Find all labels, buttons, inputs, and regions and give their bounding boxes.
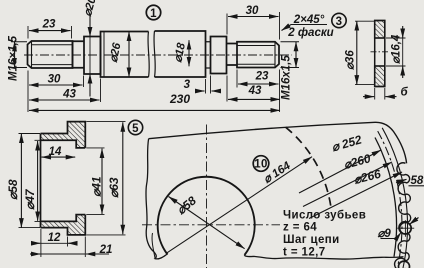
roller circle d9 xyxy=(400,222,412,234)
svg-text:30: 30 xyxy=(246,5,259,17)
svg-text:3: 3 xyxy=(336,16,343,28)
dim d18 xyxy=(188,40,190,66)
svg-text:z = 64: z = 64 xyxy=(283,222,317,234)
dim 6 thickness xyxy=(375,88,385,100)
dim 43 right xyxy=(227,70,280,113)
svg-text:б: б xyxy=(401,87,409,99)
dim 12 xyxy=(41,229,68,257)
dim d47 xyxy=(35,140,41,221)
roller pointer xyxy=(409,218,418,225)
dim M16x1.5 left xyxy=(11,42,27,68)
svg-text:23: 23 xyxy=(42,19,56,31)
dim 21 xyxy=(84,237,86,258)
svg-text:14: 14 xyxy=(49,146,62,158)
dim d36 xyxy=(355,21,374,84)
dim d41 xyxy=(86,148,104,215)
svg-text:М16×1,5: М16×1,5 xyxy=(8,35,20,81)
break lines xyxy=(148,32,149,78)
bottom boundary edge xyxy=(244,255,403,259)
svg-text:2×45°: 2×45° xyxy=(293,14,325,26)
outline xyxy=(41,122,86,228)
left neck xyxy=(73,41,85,68)
svg-text:43: 43 xyxy=(62,89,76,101)
svg-text:⌀63: ⌀63 xyxy=(107,177,121,198)
svg-text:10: 10 xyxy=(254,159,268,171)
dim 3 xyxy=(206,76,211,94)
dim d16.4 xyxy=(386,38,406,66)
svg-text:21: 21 xyxy=(99,244,113,256)
short d18 step (3mm) xyxy=(206,42,211,68)
hatch xyxy=(41,134,68,141)
dim d266 xyxy=(309,172,402,219)
svg-text:⌀41: ⌀41 xyxy=(90,176,104,197)
dim d252 xyxy=(299,150,381,193)
svg-text:3: 3 xyxy=(184,79,191,91)
callout circle 3 xyxy=(332,13,346,27)
right threaded end M16x1.5 xyxy=(237,42,279,68)
leader 2x45 xyxy=(282,25,292,31)
dim d164 radial xyxy=(167,157,312,253)
horizontal centerline xyxy=(142,224,280,226)
callout circle 5 xyxy=(128,120,142,134)
tooth profile xyxy=(395,163,411,268)
dim 14 xyxy=(42,156,76,158)
svg-text:1: 1 xyxy=(150,8,157,20)
washer centerline xyxy=(371,51,390,53)
dim 230 xyxy=(29,109,280,111)
cylinder section B d18 xyxy=(155,31,206,77)
shaft dimensions xyxy=(11,12,327,112)
svg-text:⌀36: ⌀36 xyxy=(345,50,357,70)
svg-text:230: 230 xyxy=(169,92,190,106)
top boundary edge xyxy=(149,122,407,163)
dim d26 xyxy=(128,32,130,78)
right collar xyxy=(211,37,227,74)
dim 30 left xyxy=(28,71,84,113)
leader 58 tooth xyxy=(409,185,424,187)
svg-text:t = 12,7: t = 12,7 xyxy=(283,247,326,259)
svg-text:23: 23 xyxy=(255,71,269,83)
bottom partial roller xyxy=(399,261,410,268)
dim d260 xyxy=(303,162,392,207)
dim d58 diagonal xyxy=(169,197,245,249)
dim M16x1.5 right xyxy=(281,42,300,68)
sprocket rim arcs xyxy=(375,138,397,257)
svg-text:М16х1,5: М16х1,5 xyxy=(281,55,293,100)
dim 23 left xyxy=(28,26,72,39)
svg-text:2 фаски: 2 фаски xyxy=(287,27,333,39)
svg-text:⌀16,4: ⌀16,4 xyxy=(391,34,403,64)
dim 43 left xyxy=(100,79,102,103)
left threaded end M16x1.5 xyxy=(28,41,73,68)
svg-text:58: 58 xyxy=(411,175,424,187)
left ragged edge xyxy=(146,139,168,259)
svg-text:30: 30 xyxy=(48,74,61,86)
svg-text:12: 12 xyxy=(48,232,61,244)
shaft centerline xyxy=(24,54,292,56)
left collar d20 xyxy=(84,37,101,75)
dim d20 xyxy=(89,15,91,37)
svg-text:43: 43 xyxy=(248,85,262,97)
vertical centerline xyxy=(206,125,208,268)
svg-text:⌀9: ⌀9 xyxy=(378,228,392,240)
dim d63 xyxy=(86,122,125,235)
callout circle 10 xyxy=(253,156,269,172)
callout circle 1 xyxy=(146,5,160,19)
cylinder section A d26 xyxy=(101,32,149,78)
dim d58 xyxy=(19,134,41,228)
svg-text:5: 5 xyxy=(132,123,139,135)
dim 23 right xyxy=(236,70,238,88)
svg-text:⌀58: ⌀58 xyxy=(6,179,20,200)
washer hatched section xyxy=(375,21,385,39)
svg-text:Число зубьев: Число зубьев xyxy=(283,210,366,222)
dim 30 right xyxy=(227,12,280,40)
svg-text:⌀47: ⌀47 xyxy=(23,188,37,210)
svg-text:Шаг цепи: Шаг цепи xyxy=(283,234,340,246)
right neck groove xyxy=(227,44,238,66)
leader d9 xyxy=(381,233,401,239)
bore circle d58 xyxy=(158,177,255,255)
dashed circle d164 xyxy=(286,127,332,210)
